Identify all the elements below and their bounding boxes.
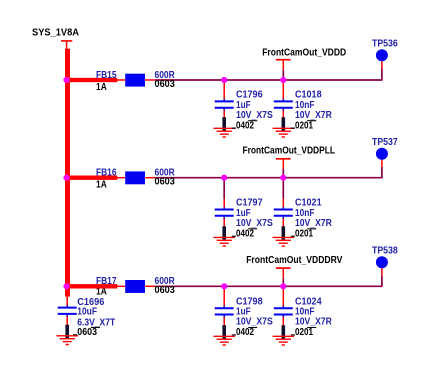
svg-text:FrontCamOut_VDDPLL: FrontCamOut_VDDPLL — [243, 146, 336, 157]
svg-text:10V_X7S: 10V_X7S — [236, 317, 273, 328]
svg-text:0402: 0402 — [236, 120, 254, 131]
svg-text:10V_X7R: 10V_X7R — [295, 317, 332, 328]
svg-text:10uF: 10uF — [77, 307, 97, 318]
svg-text:1A: 1A — [96, 82, 107, 93]
svg-text:10V_X7R: 10V_X7R — [295, 110, 332, 121]
svg-text:0201: 0201 — [295, 327, 313, 338]
svg-text:10V_X7S: 10V_X7S — [236, 218, 273, 229]
svg-text:10V_X7R: 10V_X7R — [295, 218, 332, 229]
svg-text:0201: 0201 — [295, 120, 313, 131]
svg-text:0402: 0402 — [236, 327, 254, 338]
svg-text:0603: 0603 — [155, 79, 176, 90]
svg-text:FrontCamOut_VDDDRV: FrontCamOut_VDDDRV — [246, 255, 342, 266]
svg-text:TP537: TP537 — [372, 137, 398, 148]
svg-text:FB16: FB16 — [96, 168, 117, 179]
svg-text:10V_X7S: 10V_X7S — [236, 110, 273, 121]
svg-text:0603: 0603 — [155, 177, 176, 188]
svg-text:TP536: TP536 — [372, 39, 398, 50]
svg-text:TP538: TP538 — [372, 246, 398, 257]
svg-text:FB17: FB17 — [96, 276, 117, 287]
svg-text:0603: 0603 — [77, 327, 97, 338]
svg-text:0402: 0402 — [236, 228, 254, 239]
svg-text:SYS_1V8A: SYS_1V8A — [32, 27, 79, 38]
svg-text:0201: 0201 — [295, 228, 313, 239]
svg-text:1A: 1A — [96, 180, 107, 191]
svg-text:FB15: FB15 — [96, 70, 117, 81]
svg-text:FrontCamOut_VDDD: FrontCamOut_VDDD — [262, 48, 346, 59]
svg-text:0603: 0603 — [155, 285, 176, 296]
